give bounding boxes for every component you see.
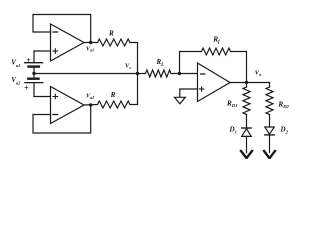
- resistor R_D1: [243, 87, 250, 115]
- wire U1 output: [84, 42, 98, 44]
- wire R bottom to summing vertical: [130, 74, 138, 105]
- wire U3 feedback loop left rise: [180, 52, 202, 74]
- node between sources: [32, 72, 35, 75]
- resistor R_L: [146, 70, 172, 77]
- op-amp U3: [198, 63, 231, 102]
- diode D1 (cathode up): [242, 128, 251, 136]
- wire U1 feedback loop to inverting input: [33, 15, 91, 43]
- wire output corner to R_D2: [269, 83, 271, 88]
- wire R top to summing vertical: [130, 43, 138, 74]
- wire R_D2 to D_2: [269, 115, 271, 128]
- node V_o junction: [245, 81, 248, 84]
- battery V_a1: [25, 51, 51, 74]
- svg-text:Va2: Va2: [86, 94, 94, 100]
- wire U3 non-inverting input to ground: [180, 89, 198, 97]
- op-amp U2: [51, 87, 85, 124]
- wire sources to node V_s: [34, 73, 138, 75]
- wire U2 feedback loop to inverting input: [33, 105, 91, 133]
- svg-text:R: R: [110, 91, 116, 99]
- svg-text:+: +: [24, 84, 29, 93]
- resistor R_f feedback: [202, 48, 231, 55]
- node V_a2 output junction: [89, 103, 92, 106]
- wire V_s to R_L: [138, 73, 146, 75]
- node V_a1 output junction: [89, 41, 92, 44]
- node V_s junction: [136, 72, 139, 75]
- wire R_D1 to D_1: [246, 115, 248, 129]
- svg-text:R: R: [108, 29, 114, 37]
- wire output to R_D1: [246, 83, 248, 88]
- arrow down (branch 2 continues): [264, 151, 275, 158]
- wire D_2 down: [269, 135, 271, 153]
- resistor R_D2: [266, 87, 273, 115]
- wire U2 output: [84, 104, 98, 107]
- node U3 inverting input junction: [178, 72, 181, 75]
- ground: [175, 97, 186, 104]
- resistor R (bottom): [98, 101, 131, 108]
- wire R_L to U3 inverting input: [171, 73, 198, 75]
- diode D2 (cathode down): [265, 127, 274, 135]
- svg-text:Va1: Va1: [86, 46, 94, 52]
- wire D_1 down: [246, 136, 248, 152]
- resistor R (top): [98, 39, 131, 46]
- svg-text:+: +: [26, 56, 31, 65]
- arrow down (branch 1 continues): [241, 151, 252, 158]
- wire R_f to output node: [231, 52, 247, 83]
- battery V_a2: [25, 74, 51, 97]
- op-amp U1: [51, 24, 85, 61]
- wire U3 output: [230, 82, 270, 84]
